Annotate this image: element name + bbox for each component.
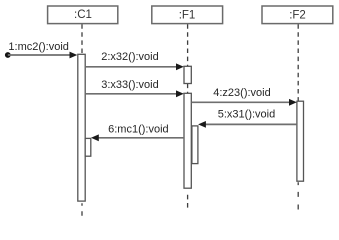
message 2 arrowhead	[176, 63, 184, 70]
svg-text::C1: :C1	[74, 9, 92, 21]
wire message 1 line	[8, 54, 70, 56]
svg-text::F1: :F1	[179, 9, 196, 21]
lifeline head :F2	[262, 6, 333, 24]
lifeline C1 (dashed)	[81, 24, 83, 216]
activation bar F1 nested	[192, 126, 198, 164]
lifeline F2 (dashed)	[297, 24, 299, 210]
wire message 3 line	[85, 93, 177, 95]
message 5 arrowhead	[198, 121, 206, 128]
message 4 arrowhead	[289, 99, 297, 106]
svg-text:1:mc2():void: 1:mc2():void	[8, 41, 69, 53]
message 3 arrowhead	[176, 90, 184, 97]
wire message 4 line	[191, 101, 290, 103]
activation bar F2	[297, 101, 304, 181]
wire message 6 line	[98, 137, 184, 139]
svg-text:5:x31():void: 5:x31():void	[218, 108, 275, 120]
activation bar F1 first	[184, 66, 191, 83]
message 6 arrowhead	[91, 134, 99, 141]
activation bar C1 nested	[85, 138, 91, 156]
wire message 2 line	[85, 66, 177, 68]
message 1 arrowhead	[70, 52, 78, 59]
lifeline head :C1	[48, 6, 118, 24]
lifeline head :F1	[152, 6, 223, 24]
svg-text:3:x33():void: 3:x33():void	[101, 79, 158, 91]
wire message 5 line	[205, 123, 297, 125]
svg-text:4:z23():void: 4:z23():void	[213, 87, 270, 99]
message 1 start circle	[5, 52, 11, 58]
svg-text::F2: :F2	[289, 9, 306, 21]
activation bar C1 main	[78, 54, 85, 201]
svg-text:2:x32():void: 2:x32():void	[101, 51, 158, 63]
svg-text:6:mc1():void: 6:mc1():void	[108, 123, 169, 135]
lifeline F1 (dashed)	[187, 24, 189, 207]
activation bar F1 second	[184, 93, 191, 188]
